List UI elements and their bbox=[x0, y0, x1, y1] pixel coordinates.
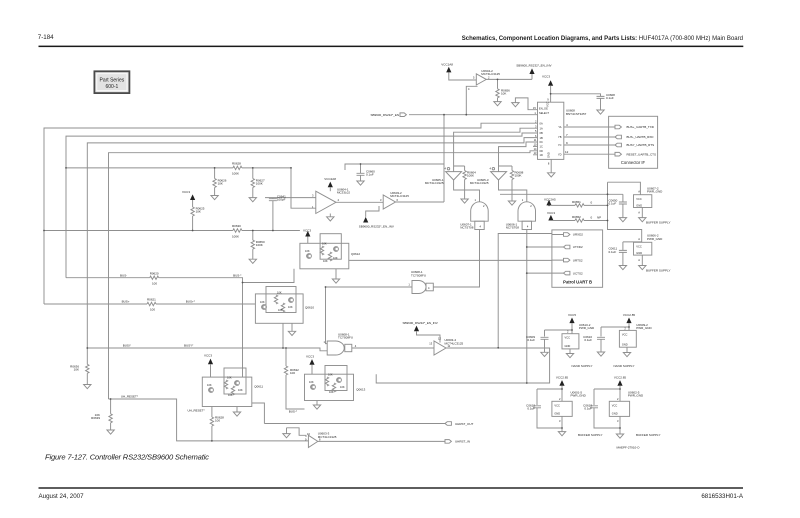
svg-text:PWR_GND: PWR_GND bbox=[628, 394, 644, 398]
svg-text:VCC: VCC bbox=[636, 197, 642, 201]
svg-text:MAEPF-27910-O: MAEPF-27910-O bbox=[616, 446, 640, 450]
svg-text:R0652: R0652 bbox=[572, 215, 581, 219]
svg-text:VCC5: VCC5 bbox=[568, 313, 576, 317]
svg-text:PWR_GND: PWR_GND bbox=[636, 326, 652, 330]
svg-text:VCC3: VCC3 bbox=[182, 190, 190, 194]
svg-text:100pF: 100pF bbox=[277, 198, 286, 202]
svg-text:9: 9 bbox=[566, 141, 568, 145]
svg-text:VCC: VCC bbox=[612, 403, 618, 407]
svg-text:Part Series: Part Series bbox=[100, 78, 125, 84]
svg-text:0: 0 bbox=[591, 201, 593, 205]
svg-text:10K: 10K bbox=[227, 376, 232, 380]
svg-text:Q0612: Q0612 bbox=[351, 252, 360, 256]
svg-text:10K: 10K bbox=[305, 249, 310, 253]
svg-text:0.1uF: 0.1uF bbox=[584, 407, 592, 411]
svg-text:BNT4CST3257: BNT4CST3257 bbox=[566, 112, 587, 116]
svg-text:UCTS2: UCTS2 bbox=[573, 271, 583, 275]
svg-text:A: A bbox=[638, 258, 640, 262]
svg-text:10K: 10K bbox=[228, 393, 233, 397]
svg-text:10K: 10K bbox=[260, 300, 265, 304]
svg-text:10K: 10K bbox=[238, 388, 243, 392]
svg-text:R0651: R0651 bbox=[572, 200, 581, 204]
svg-text:GND: GND bbox=[547, 152, 551, 158]
svg-text:4: 4 bbox=[566, 123, 568, 127]
svg-text:10K: 10K bbox=[309, 380, 314, 384]
svg-text:BUS-: BUS- bbox=[120, 273, 127, 277]
svg-text:PWR_GND: PWR_GND bbox=[647, 237, 663, 241]
svg-text:VCC3: VCC3 bbox=[542, 75, 550, 79]
svg-text:NP: NP bbox=[597, 216, 601, 220]
svg-text:4: 4 bbox=[490, 167, 492, 171]
svg-text:GND: GND bbox=[612, 412, 618, 416]
svg-text:1: 1 bbox=[408, 283, 410, 287]
svg-text:BUFFER SUPPLY: BUFFER SUPPLY bbox=[646, 220, 670, 224]
svg-text:TC7S08FU: TC7S08FU bbox=[338, 336, 353, 340]
svg-text:10K: 10K bbox=[340, 385, 345, 389]
svg-text:URXD2: URXD2 bbox=[573, 233, 584, 237]
svg-text:BUSY: BUSY bbox=[123, 343, 131, 347]
svg-text:BUFFER SUPPLY: BUFFER SUPPLY bbox=[636, 433, 660, 437]
svg-text:UH_RESET*: UH_RESET* bbox=[121, 395, 139, 399]
svg-text:VCC2A5: VCC2A5 bbox=[544, 198, 556, 202]
svg-text:4: 4 bbox=[338, 198, 340, 202]
svg-text:A: A bbox=[638, 237, 640, 241]
svg-text:10K: 10K bbox=[328, 373, 333, 377]
svg-text:A: A bbox=[638, 211, 640, 215]
svg-text:VCC1A8: VCC1A8 bbox=[441, 63, 453, 67]
svg-text:PWR_GND: PWR_GND bbox=[579, 326, 595, 330]
svg-text:2: 2 bbox=[488, 75, 490, 79]
svg-text:4: 4 bbox=[428, 286, 430, 290]
svg-text:YB: YB bbox=[558, 135, 562, 139]
svg-text:BUS+: BUS+ bbox=[122, 300, 130, 304]
svg-text:100: 100 bbox=[215, 419, 220, 423]
svg-text:10K: 10K bbox=[322, 242, 327, 246]
svg-text:10K: 10K bbox=[288, 305, 293, 309]
svg-text:1: 1 bbox=[475, 198, 477, 202]
svg-text:R0628: R0628 bbox=[232, 162, 241, 166]
svg-text:3: 3 bbox=[312, 194, 314, 198]
svg-text:R0639: R0639 bbox=[91, 416, 100, 420]
svg-text:YD: YD bbox=[558, 152, 562, 156]
svg-text:VCC: VCC bbox=[622, 332, 628, 336]
svg-text:PWR_GND: PWR_GND bbox=[647, 190, 663, 194]
svg-text:12: 12 bbox=[438, 337, 441, 341]
svg-text:MCT4LC3125: MCT4LC3125 bbox=[390, 194, 409, 198]
svg-text:100K: 100K bbox=[232, 172, 239, 176]
svg-text:2: 2 bbox=[559, 397, 561, 401]
svg-text:600-1: 600-1 bbox=[106, 84, 119, 90]
svg-text:0C: 0C bbox=[540, 140, 543, 144]
svg-text:0.1uF: 0.1uF bbox=[609, 250, 617, 254]
svg-text:GND: GND bbox=[622, 342, 628, 346]
svg-text:Q0610: Q0610 bbox=[305, 306, 314, 310]
svg-text:0.1uF: 0.1uF bbox=[527, 407, 535, 411]
svg-text:BUFFER SUPPLY: BUFFER SUPPLY bbox=[578, 433, 602, 437]
svg-text:NAND SUPPLY: NAND SUPPLY bbox=[572, 364, 593, 368]
svg-text:100: 100 bbox=[152, 281, 157, 285]
svg-text:10K: 10K bbox=[329, 390, 334, 394]
svg-text:PWR_GND: PWR_GND bbox=[571, 394, 587, 398]
svg-text:R0620: R0620 bbox=[150, 271, 159, 275]
svg-text:SB9600_RS232*_EN_INV: SB9600_RS232*_EN_INV bbox=[359, 225, 394, 229]
svg-text:4: 4 bbox=[468, 87, 470, 91]
svg-text:100K: 100K bbox=[232, 235, 239, 239]
svg-text:VCC2A8: VCC2A8 bbox=[324, 177, 336, 181]
svg-text:MCT4LC3125: MCT4LC3125 bbox=[481, 72, 500, 76]
svg-text:NC7ST08: NC7ST08 bbox=[506, 226, 520, 230]
svg-text:BUS-*: BUS-* bbox=[233, 273, 242, 277]
svg-text:4: 4 bbox=[527, 225, 529, 229]
svg-text:VCC: VCC bbox=[554, 403, 560, 407]
svg-text:1: 1 bbox=[522, 198, 524, 202]
svg-text:VCC3: VCC3 bbox=[204, 354, 212, 358]
svg-text:VCC3: VCC3 bbox=[303, 229, 311, 233]
svg-text:R0621: R0621 bbox=[147, 298, 156, 302]
svg-text:SB9600_RS232*_EN_INV: SB9600_RS232*_EN_INV bbox=[516, 64, 551, 68]
svg-text:2: 2 bbox=[530, 204, 532, 208]
svg-text:10K: 10K bbox=[278, 308, 283, 312]
svg-text:Figure 7-127. Controller RS232: Figure 7-127. Controller RS232/SB9600 Sc… bbox=[45, 452, 209, 461]
svg-text:13: 13 bbox=[429, 342, 432, 346]
svg-text:VCC: VCC bbox=[565, 336, 571, 340]
svg-text:BUS+_UARTB_TXD: BUS+_UARTB_TXD bbox=[627, 125, 655, 129]
svg-text:7-184: 7-184 bbox=[38, 34, 54, 41]
svg-text:UHRST_OUT: UHRST_OUT bbox=[455, 422, 474, 426]
svg-text:BUFFER SUPPLY: BUFFER SUPPLY bbox=[646, 269, 670, 273]
svg-text:4: 4 bbox=[480, 225, 482, 229]
svg-text:NC7ST08: NC7ST08 bbox=[460, 226, 474, 230]
svg-text:VCC3: VCC3 bbox=[547, 211, 555, 215]
svg-text:0.1uF: 0.1uF bbox=[584, 338, 592, 342]
svg-text:BUS+*: BUS+* bbox=[186, 300, 196, 304]
svg-text:Schematics, Component Location: Schematics, Component Location Diagrams,… bbox=[462, 36, 743, 42]
svg-text:SB9600_RS232*_EN_INV: SB9600_RS232*_EN_INV bbox=[403, 321, 438, 325]
svg-text:7: 7 bbox=[566, 133, 568, 137]
svg-text:4: 4 bbox=[445, 167, 447, 171]
svg-text:YC: YC bbox=[558, 143, 562, 147]
svg-text:MC33L02: MC33L02 bbox=[337, 191, 350, 195]
svg-text:GND: GND bbox=[636, 204, 642, 208]
svg-text:VCC2.85: VCC2.85 bbox=[614, 375, 627, 379]
svg-text:10K: 10K bbox=[207, 383, 212, 387]
svg-text:5: 5 bbox=[473, 76, 475, 80]
svg-text:MCT4LC3125: MCT4LC3125 bbox=[470, 181, 489, 185]
svg-text:VCC3: VCC3 bbox=[306, 355, 314, 359]
svg-text:0A: 0A bbox=[540, 121, 543, 125]
svg-text:2: 2 bbox=[617, 397, 619, 401]
svg-text:VCC: VCC bbox=[636, 245, 642, 249]
svg-text:VCC2.85: VCC2.85 bbox=[556, 375, 569, 379]
svg-text:MCT4LC3125: MCT4LC3125 bbox=[425, 181, 444, 185]
svg-text:3: 3 bbox=[617, 419, 619, 423]
svg-text:10K: 10K bbox=[74, 368, 79, 372]
svg-text:UHRST_IN: UHRST_IN bbox=[455, 440, 470, 444]
svg-text:100: 100 bbox=[150, 308, 155, 312]
svg-text:SELECT: SELECT bbox=[539, 111, 550, 115]
svg-text:10K: 10K bbox=[196, 210, 201, 214]
svg-text:1D: 1D bbox=[540, 153, 543, 157]
svg-text:0.1uF: 0.1uF bbox=[606, 96, 614, 100]
svg-text:TC7S08FU: TC7S08FU bbox=[411, 273, 426, 277]
svg-text:100K: 100K bbox=[256, 243, 263, 247]
svg-text:BUSY_UARTB_RTS: BUSY_UARTB_RTS bbox=[627, 143, 655, 147]
svg-text:10K: 10K bbox=[501, 92, 506, 96]
svg-text:1B: 1B bbox=[540, 136, 543, 140]
svg-text:Connector IF: Connector IF bbox=[621, 160, 646, 165]
svg-text:SB9600_RS232*_EN: SB9600_RS232*_EN bbox=[370, 113, 399, 117]
svg-text:0.1uF: 0.1uF bbox=[609, 202, 617, 206]
svg-text:10K: 10K bbox=[277, 291, 282, 295]
svg-text:August 24, 2007: August 24, 2007 bbox=[39, 493, 85, 500]
svg-text:6816533H01-A: 6816533H01-A bbox=[701, 493, 743, 500]
svg-text:2: 2 bbox=[483, 204, 485, 208]
svg-text:0: 0 bbox=[591, 216, 593, 220]
svg-text:6: 6 bbox=[397, 198, 399, 202]
svg-text:VCC: VCC bbox=[546, 101, 550, 107]
svg-text:3: 3 bbox=[380, 198, 382, 202]
svg-text:MCT4LC3125: MCT4LC3125 bbox=[318, 435, 337, 439]
svg-text:Q0613: Q0613 bbox=[356, 388, 365, 392]
svg-text:1C: 1C bbox=[540, 145, 543, 149]
svg-text:GND: GND bbox=[565, 344, 571, 348]
svg-text:VCC2.85: VCC2.85 bbox=[623, 313, 636, 317]
svg-text:UTXD2: UTXD2 bbox=[573, 245, 583, 249]
svg-text:10K: 10K bbox=[333, 256, 338, 260]
svg-text:BUSY*: BUSY* bbox=[184, 343, 194, 347]
svg-text:BUS-*: BUS-* bbox=[289, 410, 298, 414]
svg-text:YA: YA bbox=[558, 125, 562, 129]
svg-text:0.1uF: 0.1uF bbox=[527, 338, 535, 342]
svg-text:URTS2: URTS2 bbox=[573, 258, 583, 262]
svg-text:10K: 10K bbox=[323, 259, 328, 263]
svg-text:10K: 10K bbox=[218, 182, 223, 186]
svg-text:NAND SUPPLY: NAND SUPPLY bbox=[614, 364, 635, 368]
svg-text:Q0611: Q0611 bbox=[254, 385, 263, 389]
svg-text:0.1uF: 0.1uF bbox=[366, 173, 374, 177]
svg-text:A: A bbox=[638, 189, 640, 193]
svg-text:R0630: R0630 bbox=[232, 224, 241, 228]
svg-text:0D: 0D bbox=[540, 149, 543, 153]
svg-text:RESET_UARTB_CTS: RESET_UARTB_CTS bbox=[627, 152, 656, 156]
svg-text:100K: 100K bbox=[467, 174, 474, 178]
svg-text:GND: GND bbox=[636, 251, 642, 255]
svg-text:12: 12 bbox=[565, 150, 569, 154]
svg-text:8: 8 bbox=[548, 162, 550, 166]
svg-text:100K: 100K bbox=[256, 182, 263, 186]
svg-text:1A: 1A bbox=[540, 126, 543, 130]
svg-text:3: 3 bbox=[559, 419, 561, 423]
svg-text:Patrol UART B: Patrol UART B bbox=[563, 280, 592, 285]
svg-text:GND: GND bbox=[554, 412, 560, 416]
svg-text:0B: 0B bbox=[540, 131, 543, 135]
svg-text:UH_RESET*: UH_RESET* bbox=[188, 409, 206, 413]
svg-text:10: 10 bbox=[307, 432, 310, 436]
svg-text:BUS-_UARTB_RXD: BUS-_UARTB_RXD bbox=[627, 135, 655, 139]
svg-text:9: 9 bbox=[547, 98, 549, 102]
svg-text:100: 100 bbox=[290, 371, 295, 375]
svg-text:100K: 100K bbox=[515, 174, 522, 178]
